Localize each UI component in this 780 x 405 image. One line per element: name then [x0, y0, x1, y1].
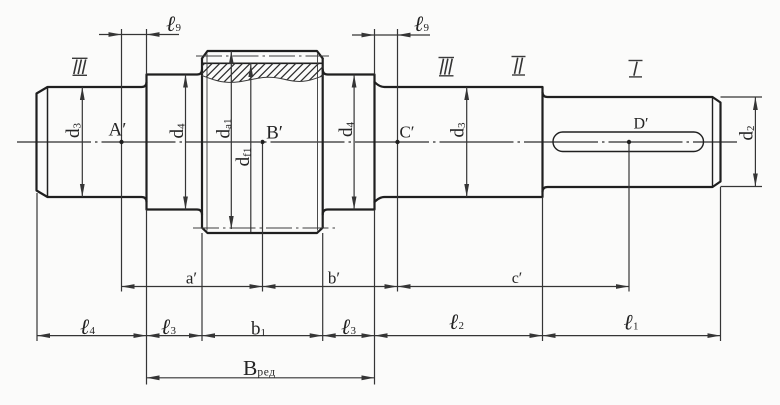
gear chamfer line right: [317, 54, 319, 231]
gear chamfer line left: [206, 54, 208, 231]
right shoulder face: [373, 75, 375, 210]
left shoulder face: [145, 75, 147, 210]
svg-text:A′: A′: [109, 120, 127, 141]
dimension df1 gear root diameter: [233, 63, 254, 232]
dimension B reducer width: [147, 356, 375, 380]
section numeral III left: [72, 58, 88, 75]
extension line at step (for l2/l1): [542, 197, 544, 341]
section numeral I: [629, 61, 643, 77]
shaft section III right journal d3 outline: [375, 82, 543, 202]
dimension l4: [37, 314, 147, 339]
extension line through A&#39; point: [121, 29, 123, 292]
dimension a&#39;: [122, 269, 263, 289]
extension line right shoulder upper (for l9): [374, 29, 376, 75]
svg-text:9: 9: [176, 22, 182, 34]
extension line left shoulder upper (for l9): [146, 29, 148, 75]
collar d4 right outline: [323, 70, 375, 215]
svg-text:ℓ: ℓ: [449, 309, 459, 334]
svg-text:9: 9: [424, 22, 430, 34]
svg-text:ℓ: ℓ: [166, 11, 176, 36]
shaft section I outline d2 with end chamfer: [543, 92, 721, 192]
extension line gear left face (for b1): [201, 233, 203, 341]
dimension l3 right: [323, 314, 375, 339]
dimension l1: [543, 310, 721, 339]
dimension d4 right: [336, 75, 357, 210]
extension line through C&#39; point: [397, 29, 399, 292]
extension line at left end (for l4): [36, 193, 38, 341]
gear root line (section): [202, 62, 323, 64]
gear hatched local section: [180, 58, 370, 88]
svg-text:ℓ: ℓ: [341, 314, 351, 339]
svg-text:B′: B′: [266, 123, 283, 144]
dimension d3 left: [63, 87, 85, 197]
svg-text:3: 3: [351, 325, 357, 337]
svg-text:ℓ: ℓ: [161, 314, 171, 339]
svg-text:a′: a′: [186, 269, 197, 288]
dimension b&#39;: [263, 269, 398, 289]
point A&#39;: [119, 140, 123, 144]
svg-text:b′: b′: [328, 269, 340, 288]
gear right face: [322, 58, 324, 227]
dimension l9 right: [352, 11, 430, 37]
svg-text:ℓ: ℓ: [80, 314, 90, 339]
extension line d2 bottom: [721, 186, 763, 188]
point D&#39;: [627, 140, 631, 144]
extension line right shoulder lower (to Bred row): [374, 210, 376, 385]
section numeral III right: [439, 58, 455, 76]
left end chamfer edge line: [47, 87, 49, 198]
label D&#39;: [633, 116, 648, 133]
collar d4 left outline: [147, 70, 203, 215]
extension line gear right face (for b1): [322, 233, 324, 341]
centerline (shaft axis): [17, 141, 737, 143]
svg-text:1: 1: [633, 321, 639, 333]
dimension c&#39;: [398, 270, 630, 289]
label B&#39;: [266, 123, 283, 144]
extension line right end (for l1): [720, 187, 722, 341]
right end chamfer edge line: [712, 97, 714, 187]
svg-text:ℓ: ℓ: [624, 310, 634, 335]
svg-text:2: 2: [459, 320, 465, 332]
shaft section III left journal d3 outline: [37, 82, 147, 202]
section numeral II: [512, 57, 526, 76]
label C&#39;: [399, 123, 414, 142]
svg-text:ℓ: ℓ: [414, 11, 424, 36]
dimension b1 gear width: [202, 319, 323, 340]
dimension da1 gear tip diameter: [213, 51, 234, 229]
extension line through D&#39; point: [628, 142, 630, 292]
gear tip top edge: [202, 51, 323, 58]
gear section break wavy line: [202, 76, 323, 83]
dimension d3 right: [448, 87, 470, 197]
keyway slot (section I): [553, 132, 704, 152]
svg-text:3: 3: [171, 325, 177, 337]
svg-text:C′: C′: [399, 123, 414, 142]
svg-text:4: 4: [90, 325, 96, 337]
step face d3 to d2: [541, 87, 543, 197]
dimension l3 left: [147, 314, 203, 339]
extension line through B&#39; point: [262, 142, 264, 292]
extension line left shoulder lower (to Bred row): [146, 210, 148, 385]
dimension l2: [375, 309, 543, 338]
dimension d4 left: [167, 75, 188, 210]
gear pitch line top (dash-dot): [196, 55, 329, 57]
extension line d2 top: [721, 96, 763, 98]
gear left face: [201, 58, 203, 227]
point C&#39;: [395, 140, 399, 144]
point B&#39;: [260, 140, 264, 144]
svg-text:c′: c′: [512, 270, 523, 287]
dimension d2: [737, 97, 758, 187]
svg-text:D′: D′: [633, 116, 648, 133]
dimension l9 left: [99, 11, 182, 37]
gear tip bottom edge: [202, 228, 323, 233]
gear pitch line bottom (dash-dot): [193, 227, 336, 229]
label A&#39;: [109, 120, 127, 141]
